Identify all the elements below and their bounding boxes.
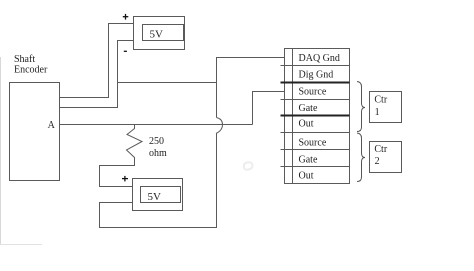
svg-text:Dig Gnd: Dig Gnd	[299, 70, 334, 81]
svg-text:A: A	[48, 120, 56, 131]
svg-text:Encoder: Encoder	[14, 65, 48, 76]
svg-text:1: 1	[375, 107, 380, 118]
svg-text:Out: Out	[299, 119, 314, 130]
svg-text:Ctr: Ctr	[374, 144, 387, 155]
svg-text:5V: 5V	[148, 191, 162, 203]
svg-text:250: 250	[149, 136, 164, 147]
svg-text:5V: 5V	[150, 29, 164, 41]
svg-text:ohm: ohm	[149, 148, 167, 159]
svg-text:Gate: Gate	[299, 155, 318, 166]
svg-text:Source: Source	[299, 87, 327, 98]
svg-text:Ctr: Ctr	[374, 94, 387, 105]
svg-text:DAQ Gnd: DAQ Gnd	[299, 53, 340, 64]
svg-text:Source: Source	[299, 138, 327, 149]
svg-text:Out: Out	[299, 171, 314, 182]
svg-text:Shaft: Shaft	[14, 54, 35, 65]
svg-text:2: 2	[375, 156, 380, 167]
svg-text:Gate: Gate	[299, 103, 318, 114]
